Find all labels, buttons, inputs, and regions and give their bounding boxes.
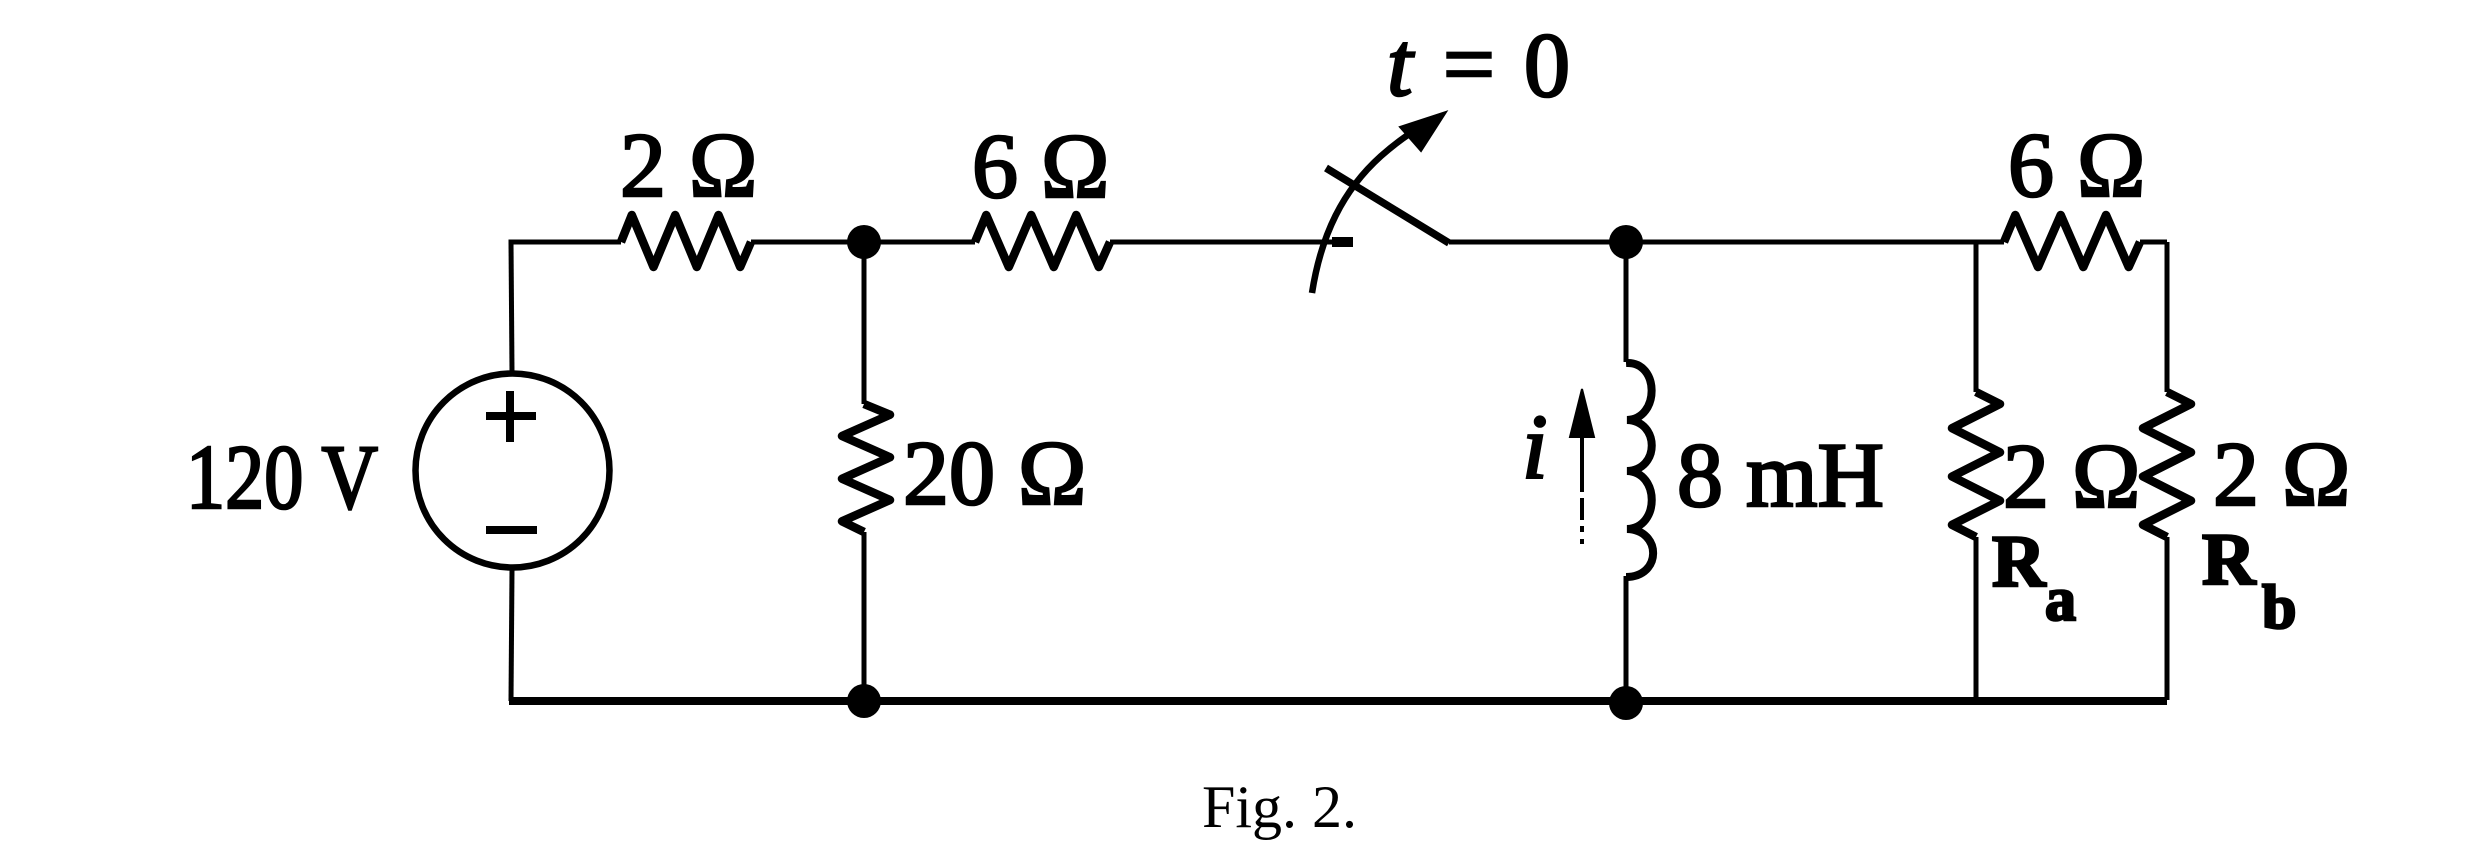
wire node A to 6ohm [864, 240, 975, 245]
resistor Ra zigzag [1952, 392, 2000, 537]
node A dot [847, 225, 881, 259]
wire 20ohm branch bottom [862, 532, 867, 700]
wire left vertical source top [511, 242, 512, 372]
resistor R 6ohm left zigzag [975, 215, 1110, 267]
inductor L 8mH coil [1626, 363, 1653, 577]
voltage source plus sign [486, 391, 536, 442]
wire Ra branch bottom [1974, 537, 1979, 700]
switch actuation arc t=0 [1312, 123, 1428, 293]
svg-text:i: i [1522, 396, 1548, 498]
resistor Rb zigzag [2143, 392, 2191, 537]
svg-text:0: 0 [1524, 14, 1570, 116]
svg-text:6 Ω: 6 Ω [972, 115, 1109, 217]
voltage source minus sign [486, 526, 537, 534]
resistor R 20ohm zigzag [842, 404, 890, 532]
svg-text:2 Ω: 2 Ω [2213, 423, 2350, 525]
svg-text:Fig. 2.: Fig. 2. [1202, 774, 1357, 840]
wire 6ohm right to top-right corner [2140, 240, 2167, 245]
svg-text:20 Ω: 20 Ω [903, 422, 1086, 524]
svg-text:6 Ω: 6 Ω [2008, 114, 2145, 216]
svg-text:R: R [1992, 521, 2047, 603]
svg-text:2 Ω: 2 Ω [620, 114, 757, 216]
wire 6ohm to switch contact [1110, 240, 1352, 245]
switch fixed contact tick [1332, 237, 1353, 247]
svg-text:2 Ω: 2 Ω [2003, 425, 2140, 527]
svg-text:b: b [2262, 574, 2296, 642]
resistor R 6ohm right zigzag [2004, 215, 2140, 267]
wire Ra branch top [1974, 242, 1979, 392]
wire 2ohm to node A [751, 240, 864, 245]
svg-text:8 mH: 8 mH [1677, 424, 1884, 526]
node A bottom dot [847, 684, 881, 718]
node B bottom dot [1609, 686, 1643, 720]
current arrow i [1570, 389, 1594, 544]
wire left vertical source bottom [511, 570, 512, 701]
voltage source V1 circle [416, 374, 610, 568]
resistor R 2ohm zigzag [621, 215, 751, 267]
switch arrowhead [1400, 112, 1446, 151]
wire Rb branch bottom [2165, 537, 2170, 700]
wire bottom bus [509, 697, 2167, 705]
wire 20ohm branch top [862, 242, 867, 404]
svg-text:120 V: 120 V [186, 426, 378, 528]
svg-text:=: = [1443, 13, 1495, 115]
wire inductor branch bottom [1624, 576, 1629, 700]
wire Rb branch top [2165, 242, 2170, 392]
wire top-left horizontal to 2ohm [511, 242, 621, 245]
svg-text:R: R [2202, 519, 2257, 601]
wire inductor branch top [1624, 242, 1629, 362]
svg-text:t: t [1387, 13, 1415, 115]
switch blade [1326, 168, 1449, 243]
svg-text:a: a [2045, 566, 2076, 634]
node B dot [1609, 225, 1643, 259]
wire switch to node B and onward to Ra junction [1449, 240, 2004, 245]
